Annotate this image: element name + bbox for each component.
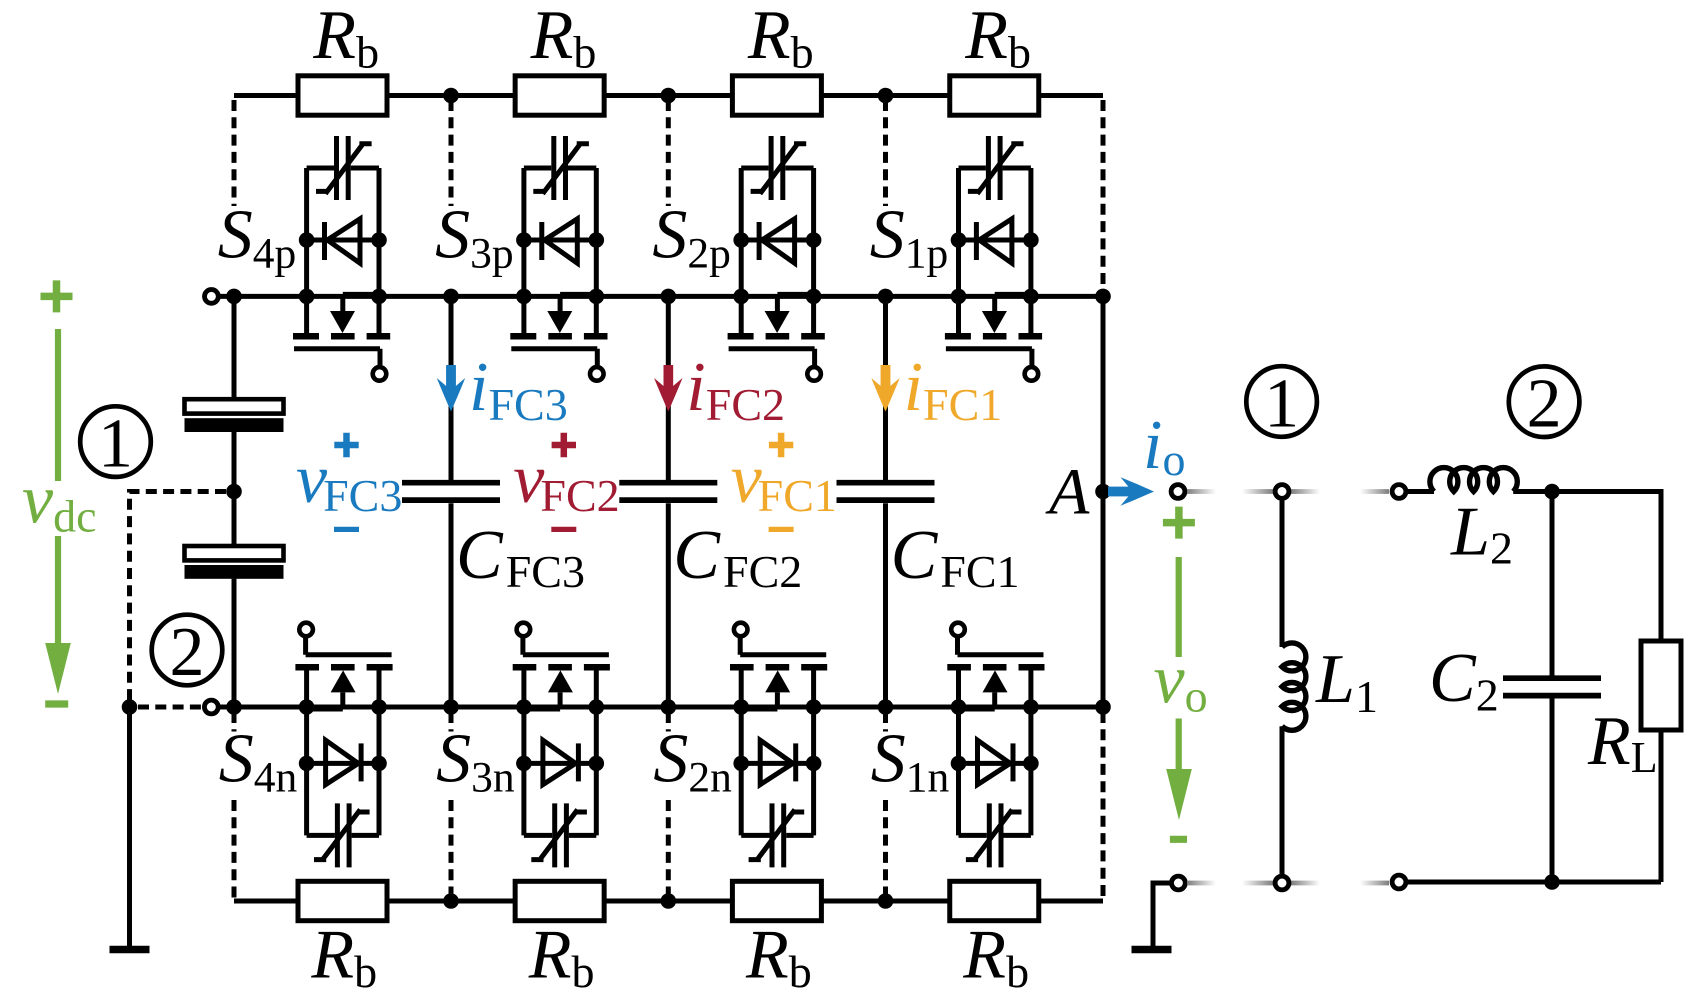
capacitor CFC2 — [619, 483, 717, 500]
junction on upper rail — [443, 289, 459, 305]
wire: upper rail — [218, 294, 1103, 299]
label + of vFC2 — [552, 433, 576, 457]
wire: dashed riser to bottom bus — [666, 712, 671, 899]
wire: faded connector — [1291, 489, 1320, 494]
label - of vdc — [45, 700, 68, 707]
wire: option 2 bottom — [1406, 880, 1661, 885]
wire: dashed drop from top bus — [666, 100, 671, 206]
ground (dc midpoint) — [110, 949, 150, 951]
wire: faded connector — [1187, 881, 1216, 886]
wire: bottom balancing bus — [234, 899, 1103, 904]
wire: dashed to DC- terminal — [138, 705, 202, 710]
node: option 1 marker (right) — [1246, 365, 1317, 442]
wire: flying-cap column 2 — [666, 296, 671, 707]
wire: ground stem — [127, 707, 132, 946]
vo arrow — [1176, 557, 1182, 775]
wire: top balancing bus — [234, 93, 1103, 98]
ground (output) — [1132, 949, 1172, 951]
junction on top bus — [661, 88, 677, 104]
junction on lower rail — [661, 699, 677, 715]
node: option 2 marker (left) — [152, 614, 223, 691]
junction on upper rail — [226, 289, 242, 305]
resistor Rb (top 1) — [298, 76, 387, 115]
capacitor CFC3 — [402, 483, 500, 500]
capacitor CFC1 — [837, 483, 935, 500]
junction on bottom bus — [661, 893, 677, 909]
current arrow iFC3 — [437, 365, 465, 412]
wire: dashed drop top-left — [232, 100, 237, 206]
junction on upper rail — [1095, 289, 1111, 305]
wire: dashed riser to bottom bus — [449, 712, 454, 899]
transistor S1p (MOSFET + body diode + Coss) — [945, 136, 1042, 381]
node: output return terminal — [1172, 876, 1186, 890]
node: option 2 return terminal — [1392, 875, 1406, 889]
wire: faded connector — [1360, 881, 1389, 886]
transistor S4p (MOSFET + body diode + Coss) — [293, 136, 390, 381]
wire: dashed midpoint tap — [130, 492, 227, 703]
node: option 2 input terminal — [1392, 485, 1406, 499]
wire + inductor L1 — [1280, 499, 1285, 648]
resistor Rb (top 3) — [732, 76, 821, 115]
capacitor dc-link upper — [185, 399, 284, 432]
wire: return to ground — [1153, 883, 1170, 946]
node: DC+ terminal — [205, 290, 219, 304]
transistor S3p (MOSFET + body diode + Coss) — [510, 136, 607, 381]
junction on top bus — [443, 88, 459, 104]
junction on upper rail — [878, 289, 894, 305]
label - of vFC1 — [769, 527, 794, 532]
wire: dashed drop top-right — [1101, 100, 1106, 296]
wire: dashed riser to bottom bus — [232, 712, 237, 899]
junction on bottom bus — [443, 893, 459, 909]
svg-text:A: A — [1045, 456, 1090, 529]
resistor Rb (bottom 2) — [515, 881, 604, 920]
wire: lower rail — [218, 705, 1103, 710]
wire: flying-cap column 1 — [883, 296, 888, 707]
current arrow io — [1108, 477, 1154, 505]
transistor S1n (MOSFET + body diode + Coss) — [947, 623, 1044, 868]
node: dc-link midpoint — [226, 484, 242, 500]
node: option 1 marker (left) — [80, 406, 151, 483]
node A junction — [1095, 484, 1111, 500]
resistor Rb (top 2) — [515, 76, 604, 115]
wire: dc-link column — [232, 296, 237, 707]
node: L1 bottom terminal — [1275, 876, 1289, 890]
junction at C2 top — [1544, 484, 1560, 500]
wire: phase-leg output column — [1101, 296, 1106, 707]
svg-text:1: 1 — [1264, 365, 1299, 442]
wire: flying-cap column 3 — [449, 296, 454, 707]
wire: faded connector — [1291, 881, 1320, 886]
svg-text:2: 2 — [170, 614, 205, 691]
junction on lower rail — [878, 699, 894, 715]
label - of vo — [1170, 836, 1187, 843]
junction on lower rail — [443, 699, 459, 715]
junction on lower rail — [1095, 699, 1111, 715]
label + of vFC1 — [769, 433, 793, 457]
wire: faded connector — [1360, 489, 1389, 494]
transistor S2p (MOSFET + body diode + Coss) — [728, 136, 825, 381]
wire: dashed drop from top bus — [449, 100, 454, 206]
junction on lower rail — [226, 699, 242, 715]
resistor Rb (bottom 1) — [298, 881, 387, 920]
resistor Rb (top 4) — [950, 76, 1039, 115]
inductor L2 — [1406, 489, 1434, 494]
current arrow iFC1 — [871, 365, 899, 412]
wire: dashed riser bottom-right — [1101, 712, 1106, 899]
resistor Rb (bottom 4) — [950, 881, 1039, 920]
label + of vFC3 — [334, 433, 358, 457]
junction on top bus — [878, 88, 894, 104]
junction at ground node — [122, 699, 138, 715]
transistor S2n (MOSFET + body diode + Coss) — [730, 623, 827, 868]
node: L1 top terminal — [1275, 485, 1289, 499]
wire: option 2 top — [1513, 492, 1661, 642]
wire: faded connector — [1242, 489, 1273, 494]
node: DC- terminal — [204, 700, 218, 714]
wire: faded connector — [1242, 881, 1273, 886]
label + of vdc — [41, 280, 73, 312]
resistor Rb (bottom 3) — [732, 881, 821, 920]
label + of vo — [1163, 507, 1195, 539]
node: option 2 marker (right) — [1509, 365, 1580, 442]
wire: dashed riser to bottom bus — [883, 712, 888, 899]
wire: faded connector — [1187, 489, 1216, 494]
svg-text:1: 1 — [98, 406, 133, 483]
junction at C2 bottom — [1544, 874, 1560, 890]
junction on upper rail — [661, 289, 677, 305]
wire: dashed drop from top bus — [883, 100, 888, 206]
vdc arrow — [55, 329, 61, 645]
node: output terminal — [1171, 485, 1185, 499]
capacitor dc-link lower — [185, 546, 284, 579]
transistor S3n (MOSFET + body diode + Coss) — [513, 623, 610, 868]
label - of vFC3 — [334, 527, 359, 532]
transistor S4n (MOSFET + body diode + Coss) — [295, 623, 392, 868]
svg-text:2: 2 — [1527, 365, 1562, 442]
resistor RL — [1641, 641, 1681, 730]
current arrow iFC2 — [654, 365, 682, 412]
junction on bottom bus — [878, 893, 894, 909]
wire + capacitor C2 — [1550, 492, 1555, 883]
label - of vFC2 — [551, 527, 576, 532]
